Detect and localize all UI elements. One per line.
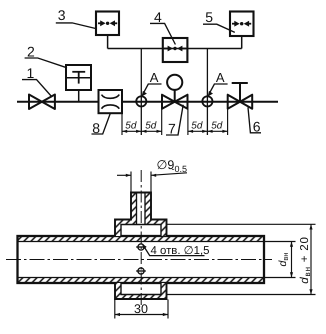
label 4 xyxy=(150,9,175,44)
svg-text:A: A xyxy=(216,70,225,85)
svg-text:30: 30 xyxy=(134,302,148,316)
svg-text:dвн + 20: dвн + 20 xyxy=(299,236,312,283)
pipe wall hatching bottom band xyxy=(18,278,265,284)
dp-gauge box 5 xyxy=(230,12,254,37)
svg-text:A: A xyxy=(150,70,159,85)
dimension d_vn (inner dia) xyxy=(264,242,296,278)
valve 1 xyxy=(29,95,55,110)
dimension d_vn + 20 (chamber outer) xyxy=(167,224,316,294)
svg-text:3: 3 xyxy=(58,7,66,23)
label 7 xyxy=(166,105,183,137)
wire: riser to tap A1 xyxy=(140,49,142,136)
dimension extension lines (5d group) xyxy=(122,109,228,135)
pipe body outline xyxy=(18,236,265,283)
gate valve 6 xyxy=(228,83,253,109)
dp-gauge box 3 xyxy=(96,12,119,36)
leader: 4 holes note xyxy=(142,244,209,257)
hole (top, 1 of 4 holes) xyxy=(136,244,146,250)
dimension 30 (boss width) xyxy=(115,300,168,319)
dp-gauge box 4 xyxy=(163,38,188,62)
centerline horizontal (pipe axis) xyxy=(6,259,272,261)
label 5 xyxy=(203,9,235,32)
svg-text:5d: 5d xyxy=(191,121,203,132)
lower annular chamber boss xyxy=(115,283,167,299)
centerline vertical (boss axis) xyxy=(140,170,142,305)
label 3 xyxy=(56,7,96,29)
dimension line 5d left group xyxy=(122,130,162,133)
label A (left tap) xyxy=(142,70,162,97)
label 2 xyxy=(25,44,67,68)
wire: main pipe line xyxy=(17,101,278,103)
pipe wall hatching top band xyxy=(18,236,265,242)
svg-text:2: 2 xyxy=(27,44,35,60)
thermometer box 2 xyxy=(66,65,91,90)
svg-text:5: 5 xyxy=(205,9,213,25)
svg-text:5d: 5d xyxy=(125,121,137,132)
label 8 xyxy=(92,114,111,136)
pressure tap A1 xyxy=(136,96,146,106)
label A (right tap) xyxy=(208,70,228,97)
wire: riser to tap A2 xyxy=(206,49,208,136)
wire: box2 stem xyxy=(78,90,80,102)
label 1 xyxy=(22,65,52,97)
svg-text:1: 1 xyxy=(27,65,35,81)
wire: box3 stem xyxy=(107,35,109,49)
svg-text:5d: 5d xyxy=(211,121,223,132)
svg-text:-0.5: -0.5 xyxy=(172,164,188,174)
wire: box5 stem xyxy=(241,36,243,49)
upper annular chamber boss with tube xyxy=(115,193,167,237)
svg-text:7: 7 xyxy=(168,121,176,137)
svg-text:6: 6 xyxy=(253,118,261,134)
hole (bottom, 1 of 4 holes) xyxy=(136,268,146,274)
dimension line 5d right group xyxy=(188,130,228,133)
label 6 xyxy=(248,107,261,134)
wire: impulse manifold xyxy=(108,48,242,50)
pressure tap A2 xyxy=(202,96,212,106)
dimension Ø9 (tube outer dia) xyxy=(117,158,187,191)
svg-text:5d: 5d xyxy=(145,121,157,132)
nozzle box 8 xyxy=(99,90,123,113)
svg-text:4 отв. ∅1,5: 4 отв. ∅1,5 xyxy=(151,245,210,257)
control valve 7 xyxy=(162,75,188,109)
